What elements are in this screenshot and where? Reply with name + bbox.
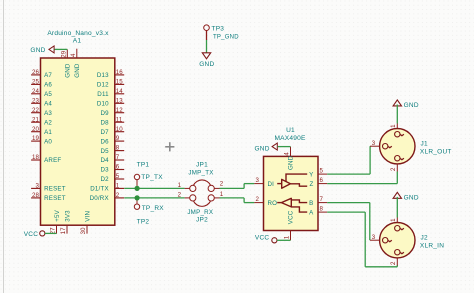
svg-text:D12: D12	[97, 82, 109, 89]
pin 29 GND (top)	[60, 49, 71, 77]
pin 3 RESET	[31, 183, 66, 193]
pin 22 A3	[31, 107, 52, 117]
svg-text:11: 11	[116, 116, 123, 123]
pin 1 VCC (bottom)	[284, 210, 295, 240]
wire GND to J1 pin 1	[396, 105, 398, 124]
pin 18 AREF	[31, 154, 61, 164]
svg-text:1: 1	[116, 183, 120, 190]
power symbol VCC (A1)	[24, 231, 45, 238]
test point TP1 TP_TX	[134, 162, 163, 189]
svg-text:14: 14	[116, 88, 124, 95]
pin 28 RESET	[31, 192, 66, 202]
svg-text:A1: A1	[44, 129, 52, 136]
svg-text:U1: U1	[286, 127, 295, 134]
svg-text:5: 5	[116, 173, 120, 180]
pin 3	[370, 140, 392, 149]
pin 1 D1/TX	[90, 183, 124, 193]
ground GND (TP3)	[199, 53, 214, 68]
driver amplifier symbol	[277, 174, 307, 188]
svg-text:17: 17	[60, 227, 67, 235]
pin 25 A6	[31, 79, 52, 89]
svg-text:21: 21	[32, 116, 40, 123]
pin 12 D9	[100, 107, 124, 117]
pin 8 A	[309, 206, 327, 217]
pin 7 D4	[100, 154, 124, 164]
pin 23 A4	[31, 97, 52, 107]
svg-text:9: 9	[116, 135, 120, 142]
wire Y (U1 pin5 to J1 pin3)	[327, 173, 370, 175]
svg-text:22: 22	[32, 107, 40, 114]
pin 20 A1	[31, 126, 52, 136]
wire GND to A1 pin 29	[55, 48, 68, 50]
svg-text:J2: J2	[421, 234, 429, 241]
test point TP3	[204, 25, 240, 41]
svg-text:TP1: TP1	[137, 162, 150, 169]
svg-text:8: 8	[116, 145, 120, 152]
connector J2 XLR_IN	[370, 218, 444, 266]
pin 17 3V3 (bottom)	[60, 210, 71, 235]
svg-text:TP_GND: TP_GND	[213, 35, 239, 41]
jumper JP1 JMP_TX	[178, 162, 224, 192]
power symbol GND (J1)	[393, 100, 419, 109]
pin 27 +5V (bottom)	[50, 209, 61, 234]
pin 13 D10	[97, 97, 124, 107]
pin 21 A2	[31, 116, 52, 126]
svg-text:GND: GND	[64, 63, 71, 78]
svg-text:A: A	[309, 209, 314, 216]
wire JP1 to U1 DI	[220, 187, 245, 189]
svg-text:GND: GND	[254, 145, 269, 152]
pin 16 D13	[97, 69, 124, 79]
svg-text:Y: Y	[309, 171, 313, 178]
svg-text:GND: GND	[404, 102, 419, 109]
svg-text:Z: Z	[310, 181, 314, 188]
svg-text:19: 19	[32, 135, 40, 142]
svg-text:1: 1	[220, 191, 224, 198]
svg-text:D1/TX: D1/TX	[90, 186, 109, 193]
pin 15 D12	[97, 79, 124, 89]
wire A (U1 pin8 to J2 pin2)	[327, 211, 365, 213]
svg-text:RESET: RESET	[44, 195, 66, 202]
svg-text:4: 4	[70, 53, 77, 57]
svg-text:A0: A0	[44, 138, 52, 145]
svg-text:2: 2	[220, 181, 224, 188]
pin 14 D11	[97, 88, 124, 98]
svg-text:1: 1	[390, 218, 397, 222]
svg-text:D9: D9	[100, 110, 109, 117]
wire RX (A1 D0/RX to JP2)	[124, 197, 184, 199]
svg-text:30: 30	[80, 227, 87, 235]
svg-text:D6: D6	[100, 138, 109, 145]
connector body	[380, 223, 415, 258]
pin 8 D5	[100, 145, 124, 155]
wire B (U1 pin7 to J2 pin3)	[327, 202, 370, 204]
body A1	[41, 58, 115, 225]
svg-text:10: 10	[116, 126, 124, 133]
svg-text:JP2: JP2	[196, 217, 208, 224]
svg-text:D3: D3	[100, 167, 109, 174]
svg-text:29: 29	[60, 50, 67, 58]
svg-text:2: 2	[255, 196, 259, 203]
svg-text:DI: DI	[268, 181, 275, 188]
svg-text:GND: GND	[288, 155, 295, 170]
svg-text:A1: A1	[73, 38, 82, 45]
power symbol VCC (U1)	[255, 234, 277, 243]
pin 7 B	[309, 196, 327, 207]
pin 3 DI	[254, 177, 274, 188]
wire JP2 to U1 RO	[220, 197, 245, 199]
test point TP2 TP_RX	[134, 198, 164, 225]
svg-text:XLR_OUT: XLR_OUT	[420, 149, 452, 156]
svg-text:8: 8	[320, 206, 324, 213]
pin 5 Y	[309, 168, 327, 179]
pin 9 D6	[100, 135, 124, 145]
svg-text:+5V: +5V	[54, 209, 61, 221]
pin 4 GND (top)	[70, 49, 81, 78]
svg-text:D10: D10	[97, 101, 109, 108]
svg-text:A5: A5	[44, 91, 52, 98]
connector body	[380, 129, 415, 164]
svg-text:18: 18	[32, 154, 40, 161]
pin 1	[390, 218, 404, 231]
svg-text:JP1: JP1	[196, 162, 208, 169]
svg-text:A7: A7	[44, 72, 52, 79]
svg-text:MAX490E: MAX490E	[274, 135, 305, 142]
svg-text:VIN: VIN	[84, 211, 91, 222]
svg-text:D11: D11	[97, 91, 109, 98]
svg-text:7: 7	[116, 154, 120, 161]
svg-text:XLR_IN: XLR_IN	[420, 243, 444, 250]
svg-text:D2: D2	[100, 176, 109, 183]
svg-text:JMP_TX: JMP_TX	[188, 169, 213, 176]
svg-text:2: 2	[116, 192, 120, 199]
svg-text:GND: GND	[404, 194, 419, 201]
pin 2	[390, 250, 404, 266]
svg-text:1: 1	[284, 235, 291, 239]
pin 6 Z	[310, 177, 328, 188]
svg-text:D13: D13	[97, 72, 109, 79]
pin 6 D3	[100, 164, 124, 174]
svg-text:D7: D7	[100, 129, 109, 136]
power symbol GND (U1)	[254, 143, 277, 152]
pin 2 D0/RX	[90, 192, 125, 202]
svg-text:3: 3	[372, 234, 376, 241]
svg-text:6: 6	[320, 177, 324, 184]
pin 10 D7	[100, 126, 124, 136]
svg-text:13: 13	[116, 97, 124, 104]
junction TX / TP1	[135, 186, 140, 191]
pin 2	[390, 156, 404, 172]
svg-text:25: 25	[32, 79, 40, 86]
svg-text:2: 2	[390, 261, 397, 265]
svg-text:12: 12	[116, 107, 124, 114]
power symbol GND (A1)	[30, 46, 54, 54]
svg-text:AREF: AREF	[44, 157, 61, 164]
pin 5 D2	[100, 173, 124, 183]
svg-text:TP3: TP3	[212, 25, 225, 32]
svg-text:24: 24	[32, 88, 40, 95]
wire GND to J2 pin 1	[396, 197, 398, 218]
pin 24 A5	[31, 88, 52, 98]
wire Z (U1 pin6 to J1 pin2)	[327, 183, 397, 185]
svg-text:A3: A3	[44, 110, 52, 117]
svg-text:D5: D5	[100, 148, 109, 155]
connector J1 XLR_OUT	[370, 124, 452, 172]
jumper JP2 JMP_RX	[178, 191, 224, 224]
svg-text:VCC: VCC	[255, 234, 270, 241]
pin 30 VIN (bottom)	[80, 211, 91, 235]
svg-text:GND: GND	[199, 61, 214, 68]
wire VCC to A1 pin 27	[45, 232, 57, 234]
crosshair marker	[165, 142, 174, 151]
pin 3	[370, 234, 392, 243]
svg-text:D4: D4	[100, 157, 109, 164]
pin 1	[390, 124, 404, 137]
wire VCC to U1 pin 1	[277, 239, 291, 241]
junction RX / TP2	[135, 195, 140, 200]
svg-text:3: 3	[255, 177, 259, 184]
svg-text:26: 26	[32, 69, 40, 76]
pin 11 D8	[100, 116, 124, 126]
pin 2 RO	[254, 196, 277, 207]
svg-text:23: 23	[32, 97, 40, 104]
receiver amplifier symbol	[277, 198, 307, 212]
svg-text:7: 7	[320, 196, 324, 203]
svg-text:VCC: VCC	[24, 231, 39, 238]
svg-text:20: 20	[32, 126, 40, 133]
svg-text:GND: GND	[30, 47, 45, 54]
svg-text:A2: A2	[44, 119, 52, 126]
svg-text:TP_RX: TP_RX	[142, 205, 165, 212]
svg-text:VCC: VCC	[288, 210, 295, 224]
svg-text:5: 5	[320, 168, 324, 175]
body U1	[264, 156, 319, 230]
power symbol GND (J2)	[393, 192, 419, 201]
svg-text:1: 1	[178, 182, 182, 189]
wire TX (A1 D1/TX to JP1)	[124, 187, 184, 189]
svg-text:TP_TX: TP_TX	[141, 174, 163, 181]
svg-text:2: 2	[390, 167, 397, 171]
svg-text:Arduino_Nano_v3.x: Arduino_Nano_v3.x	[47, 30, 109, 37]
svg-text:A4: A4	[44, 101, 52, 108]
svg-text:28: 28	[32, 192, 40, 199]
svg-text:4: 4	[284, 152, 291, 156]
pin 4 GND (top)	[284, 147, 295, 170]
pin 19 A0	[31, 135, 52, 145]
wire TP3 to GND	[206, 31, 208, 40]
svg-text:16: 16	[116, 69, 124, 76]
svg-text:3V3: 3V3	[64, 210, 71, 222]
svg-text:D0/RX: D0/RX	[90, 195, 109, 202]
IC U1 MAX490E	[254, 127, 327, 240]
svg-text:TP2: TP2	[137, 218, 150, 225]
Arduino Nano A1	[31, 30, 124, 234]
svg-text:15: 15	[116, 79, 124, 86]
svg-text:D8: D8	[100, 119, 109, 126]
svg-text:6: 6	[116, 164, 120, 171]
svg-text:B: B	[309, 200, 313, 207]
svg-text:GND: GND	[74, 63, 81, 78]
wire GND to U1 pin 4	[278, 146, 291, 148]
pin 26 A7	[31, 69, 52, 79]
svg-text:J1: J1	[421, 140, 429, 147]
svg-text:JMP_RX: JMP_RX	[187, 209, 213, 216]
svg-text:RESET: RESET	[44, 186, 66, 193]
svg-text:3: 3	[35, 183, 39, 190]
svg-text:RO: RO	[268, 200, 278, 207]
svg-text:A6: A6	[44, 82, 52, 89]
svg-text:1: 1	[390, 124, 397, 128]
svg-text:2: 2	[178, 191, 182, 198]
svg-text:3: 3	[372, 140, 376, 147]
